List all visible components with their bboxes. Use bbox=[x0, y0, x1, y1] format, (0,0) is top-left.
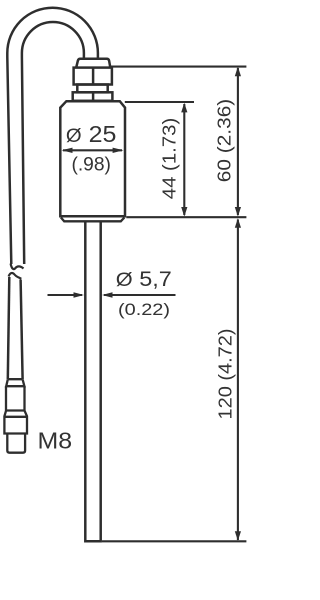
dim 120 arrows bbox=[235, 218, 241, 541]
extension line probe tip bbox=[102, 540, 246, 542]
svg-text:(.98): (.98) bbox=[71, 153, 111, 175]
svg-text:120 (4.72): 120 (4.72) bbox=[215, 329, 236, 420]
dim 120 line bbox=[237, 220, 239, 541]
gland locknut bbox=[73, 92, 113, 101]
dim Ø5.7 line bbox=[104, 294, 176, 296]
sensor body bbox=[60, 101, 125, 216]
cable upper segment bbox=[7, 8, 98, 264]
probe tube bbox=[85, 222, 100, 542]
M8 connector body bbox=[4, 411, 27, 434]
cable gland dome bbox=[76, 59, 110, 68]
dim Ø5.7 left arrow bbox=[48, 294, 83, 296]
dim 44 line bbox=[183, 104, 185, 215]
dim 44 arrows bbox=[181, 103, 187, 217]
dim 60 arrows bbox=[235, 67, 241, 217]
cable lower segment bbox=[8, 277, 23, 379]
svg-text:44 (1.73): 44 (1.73) bbox=[159, 118, 180, 200]
svg-text:M8: M8 bbox=[38, 428, 73, 454]
extension line body top bbox=[125, 101, 194, 103]
dim arrow Ø25 bbox=[63, 149, 122, 151]
gland ring bbox=[77, 85, 107, 93]
M8 connector boot bbox=[5, 386, 26, 410]
body bottom lip bbox=[61, 218, 125, 222]
extension line nut top bbox=[111, 66, 246, 68]
svg-text:Ø 5,7: Ø 5,7 bbox=[116, 268, 172, 291]
M8 connector thread bbox=[7, 434, 25, 453]
svg-text:(0.22): (0.22) bbox=[118, 300, 170, 319]
svg-text:60 (2.36): 60 (2.36) bbox=[214, 99, 235, 183]
M8 connector strain relief bbox=[6, 379, 24, 386]
gland locknut facet line bbox=[92, 92, 95, 101]
dim 60 line bbox=[237, 68, 239, 215]
gland nut facet line bbox=[92, 68, 95, 85]
cable gland nut bbox=[74, 68, 112, 85]
cable break symbol bbox=[9, 264, 24, 279]
extension line body bottom bbox=[126, 216, 246, 218]
